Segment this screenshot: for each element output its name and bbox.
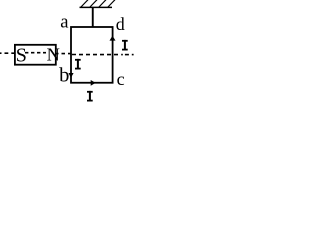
current arrow on left side (a to b, pointing down)	[68, 73, 73, 78]
current label I on right side	[122, 40, 128, 51]
axis line, dot right of loop	[121, 54, 123, 56]
svg-text:N: N	[47, 45, 60, 65]
magnet bar	[15, 45, 56, 65]
current label I below bottom side	[87, 91, 93, 102]
svg-text:a: a	[60, 12, 68, 33]
axis line, dash right of loop	[125, 54, 129, 56]
svg-text:b: b	[59, 65, 69, 87]
loop abcd	[71, 27, 113, 83]
axis line, last dash at right edge	[132, 54, 134, 56]
svg-text:c: c	[117, 69, 125, 89]
current label I on left side	[75, 59, 81, 70]
ceiling hatch 2	[90, 0, 97, 7]
ceiling support line	[80, 6, 113, 8]
axis dash-dot line, segment left of magnet	[0, 52, 15, 54]
current arrow on bottom side (b to c, pointing right)	[91, 80, 96, 86]
axis line, segment between magnet and loop	[56, 53, 71, 55]
svg-text:d: d	[116, 14, 125, 34]
ceiling hatch 4	[108, 0, 115, 7]
hanger wire	[92, 8, 94, 27]
current arrow on right side (c to d, pointing up)	[110, 36, 116, 41]
magnet inner dashes	[25, 52, 46, 54]
ceiling hatch 3	[99, 0, 106, 7]
ceiling hatch 1	[81, 0, 88, 7]
svg-text:S: S	[16, 45, 27, 67]
axis line, segment through the loop	[72, 54, 119, 56]
